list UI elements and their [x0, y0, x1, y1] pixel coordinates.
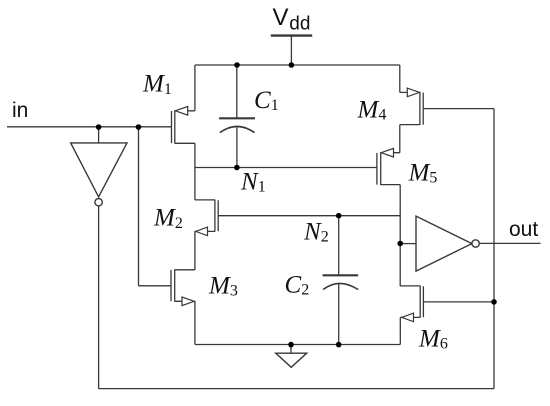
svg-text:in: in [12, 99, 28, 122]
svg-text:dd: dd [289, 14, 310, 35]
svg-text:out: out [509, 218, 538, 241]
svg-text:V: V [273, 4, 289, 31]
